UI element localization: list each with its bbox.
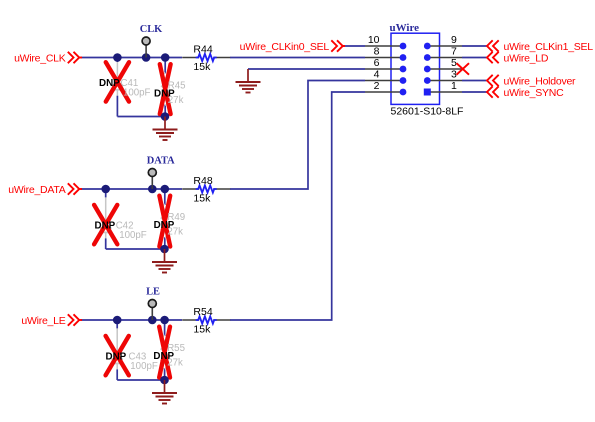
svg-text:6: 6 — [374, 57, 380, 69]
svg-text:4: 4 — [374, 69, 380, 81]
svg-text:DNP: DNP — [95, 221, 116, 232]
svg-text:LE: LE — [146, 287, 160, 298]
svg-text:27k: 27k — [168, 95, 184, 106]
svg-text:3: 3 — [451, 69, 457, 81]
svg-text:9: 9 — [451, 34, 457, 46]
svg-text:uWire_SYNC: uWire_SYNC — [504, 87, 565, 99]
svg-text:10: 10 — [368, 34, 380, 46]
svg-text:uWire_LE: uWire_LE — [21, 315, 65, 327]
svg-text:R54: R54 — [193, 306, 212, 318]
svg-text:15k: 15k — [193, 324, 211, 336]
svg-text:uWire_DATA: uWire_DATA — [8, 184, 65, 196]
svg-text:27k: 27k — [167, 227, 183, 238]
svg-text:CLK: CLK — [140, 24, 163, 35]
svg-text:1: 1 — [451, 80, 457, 92]
svg-text:15k: 15k — [193, 193, 211, 205]
svg-text:uWire_LD: uWire_LD — [504, 52, 549, 64]
svg-text:R44: R44 — [193, 43, 212, 55]
svg-text:100pF: 100pF — [130, 361, 158, 372]
svg-text:5: 5 — [451, 57, 457, 69]
svg-text:DATA: DATA — [147, 156, 175, 167]
svg-text:uWire_CLK: uWire_CLK — [14, 52, 66, 64]
svg-text:DNP: DNP — [99, 78, 120, 89]
svg-text:R48: R48 — [193, 175, 212, 187]
svg-text:27k: 27k — [167, 358, 183, 369]
svg-text:100pF: 100pF — [119, 230, 147, 241]
svg-text:15k: 15k — [193, 61, 211, 73]
svg-text:uWire_CLKin1_SEL: uWire_CLKin1_SEL — [504, 41, 594, 53]
svg-text:uWire_Holdover: uWire_Holdover — [504, 75, 577, 87]
svg-text:52601-S10-8LF: 52601-S10-8LF — [391, 105, 464, 117]
svg-text:uWire_CLKin0_SEL: uWire_CLKin0_SEL — [240, 41, 330, 53]
svg-text:DNP: DNP — [106, 352, 127, 363]
svg-text:8: 8 — [374, 46, 380, 58]
svg-text:100pF: 100pF — [123, 88, 151, 99]
svg-text:2: 2 — [374, 80, 380, 92]
svg-text:7: 7 — [451, 46, 457, 58]
svg-text:uWire: uWire — [390, 22, 420, 34]
